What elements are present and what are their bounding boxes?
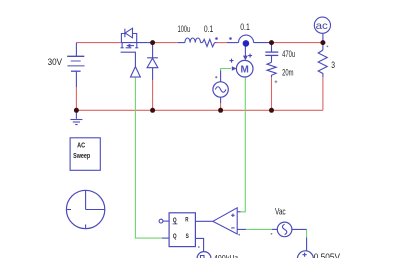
svg-text:Q: Q xyxy=(173,234,177,241)
svg-text:0.1: 0.1 xyxy=(240,22,250,32)
svg-text:0.505V: 0.505V xyxy=(314,252,340,258)
svg-text:470u: 470u xyxy=(282,48,295,59)
svg-text:Sweep: Sweep xyxy=(73,152,90,160)
svg-text:R: R xyxy=(185,217,188,224)
svg-text:AC: AC xyxy=(77,142,85,150)
svg-text:S: S xyxy=(186,234,190,241)
svg-text:100u: 100u xyxy=(178,23,191,34)
svg-text:Q: Q xyxy=(173,218,177,225)
svg-text:M: M xyxy=(241,64,249,75)
svg-text:ac: ac xyxy=(316,21,329,32)
svg-text:0.1: 0.1 xyxy=(204,24,214,34)
svg-text:3: 3 xyxy=(331,60,335,70)
svg-text:20m: 20m xyxy=(282,67,293,78)
svg-text:Vac: Vac xyxy=(275,206,286,216)
svg-text:30V: 30V xyxy=(48,57,63,68)
svg-text:400kHz: 400kHz xyxy=(214,254,238,258)
